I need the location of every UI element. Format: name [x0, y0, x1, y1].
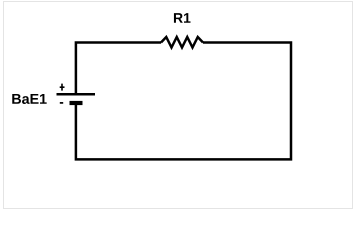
plus sign: [60, 84, 65, 91]
battery BaE1 positive plate: [57, 93, 96, 96]
wire right + bottom segment: [76, 43, 291, 160]
label R1: [174, 13, 191, 23]
resistor R1: [161, 37, 203, 48]
minus sign: [60, 102, 63, 104]
label BaE1: [12, 94, 46, 104]
battery BaE1 negative plate: [70, 101, 83, 105]
wire top-left segment (left vertical + top horizontal to resistor): [76, 43, 161, 95]
